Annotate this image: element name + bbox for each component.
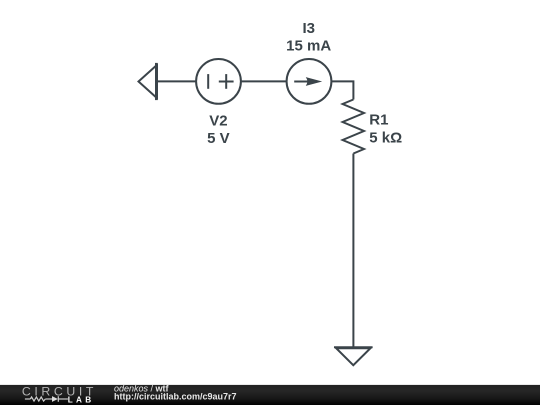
svg-text:R1: R1 [369, 112, 388, 129]
wire: V2 to I3 [241, 80, 287, 82]
current source I3 [287, 59, 332, 104]
svg-text:http://circuitlab.com/c9au7r7: http://circuitlab.com/c9au7r7 [114, 391, 237, 401]
voltage source V2 [196, 59, 241, 104]
svg-text:LAB: LAB [68, 395, 95, 404]
svg-text:5 kΩ: 5 kΩ [369, 129, 402, 146]
footer bar [0, 385, 540, 405]
svg-text:I3: I3 [302, 20, 315, 37]
ground GND2 (bottom) [334, 347, 373, 365]
svg-text:V2: V2 [209, 113, 227, 130]
svg-text:15 mA: 15 mA [286, 38, 331, 55]
wire: left ground to V2 [156, 80, 196, 82]
wire: I3 to corner, down to R1 [331, 81, 353, 99]
svg-text:5 V: 5 V [207, 130, 230, 147]
ground GND1 (rotated, pointing left) [139, 63, 158, 100]
wire: R1 to ground [352, 154, 354, 348]
CircuitLab logo: resistor+diode squiggle [25, 396, 68, 402]
resistor R1 [343, 100, 364, 154]
